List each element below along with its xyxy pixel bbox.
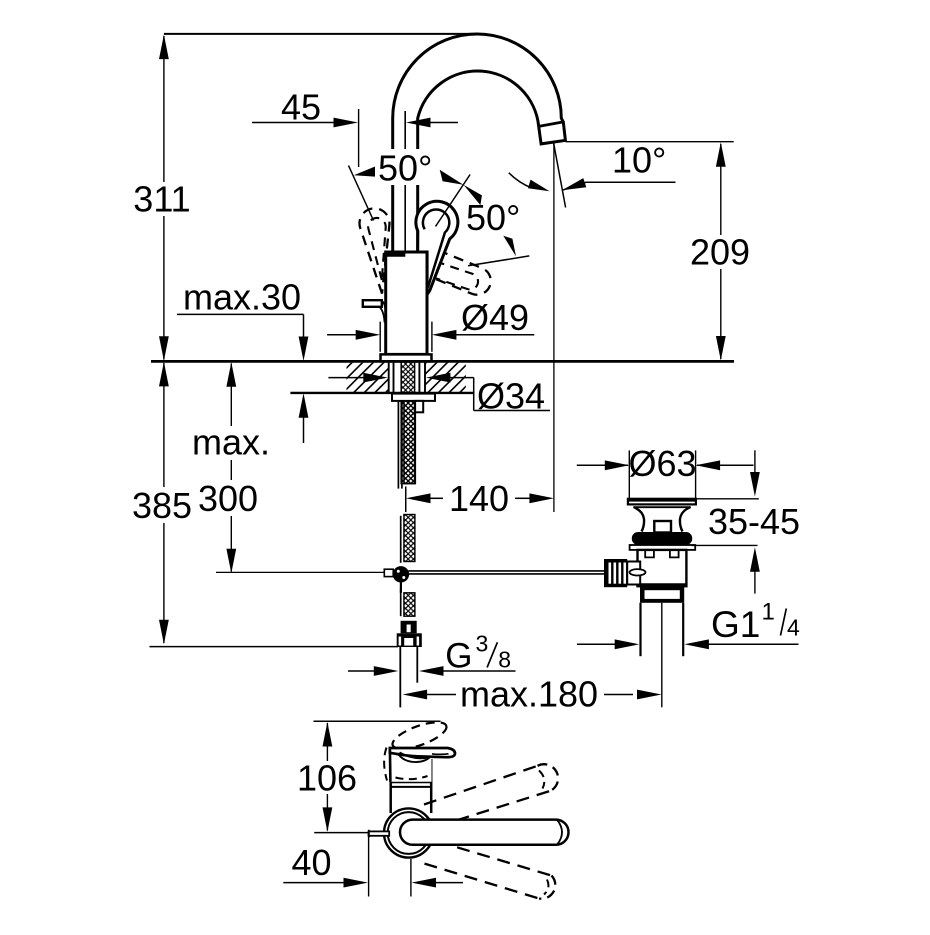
svg-text:G: G	[445, 637, 472, 676]
drain body	[638, 550, 687, 586]
pop-up rod knob	[363, 300, 382, 307]
svg-text:300: 300	[198, 478, 258, 519]
drain axis line	[661, 603, 663, 708]
drain step collar	[640, 587, 684, 603]
flexible hose segment 3	[404, 593, 415, 616]
spout middle seam / 45 extension	[404, 111, 406, 252]
supply tailpipe	[399, 647, 401, 707]
dim max.300	[230, 364, 232, 572]
shank sleeve lines	[388, 363, 390, 392]
counter hatching	[320, 362, 512, 395]
svg-text:311: 311	[133, 179, 190, 220]
dim 209	[720, 144, 722, 359]
svg-text:Ø49: Ø49	[461, 297, 529, 338]
svg-text:50°: 50°	[378, 147, 432, 188]
dim 311	[163, 36, 165, 360]
svg-text:1: 1	[762, 599, 775, 626]
svg-text:8: 8	[498, 647, 511, 673]
G3/8 connector nut	[397, 633, 422, 647]
pop-up rod knurled knob	[604, 559, 627, 587]
svg-text:45: 45	[281, 87, 321, 128]
lower view: handle lever blade (solid)	[390, 748, 455, 757]
dim O49	[379, 322, 381, 352]
body top thick bar	[386, 252, 405, 257]
handle swing range left (dashed lever)	[360, 208, 390, 293]
lower view: swivel joint	[384, 808, 433, 857]
svg-text:max.30: max.30	[183, 277, 301, 318]
svg-text:G1: G1	[711, 604, 760, 645]
horizontal pop-up rod	[408, 570, 604, 572]
drain seal washer	[632, 532, 692, 545]
svg-text:3: 3	[476, 631, 489, 657]
faucet body	[386, 252, 427, 354]
svg-text:50°: 50°	[466, 197, 520, 238]
lower view: spout tube	[400, 820, 569, 845]
lower view: dashed spout positions	[424, 766, 538, 805]
flexible hose segment 2	[404, 515, 415, 562]
drain plug tab	[654, 521, 671, 533]
top reference line	[164, 33, 478, 35]
svg-text:385: 385	[132, 485, 192, 526]
lower view: pop-up rod	[369, 831, 390, 835]
drain tailpipe G1 1/4	[639, 603, 641, 656]
svg-text:4: 4	[787, 614, 800, 640]
10 deg curved arrow	[509, 173, 532, 188]
dim 40	[368, 837, 370, 897]
385 bottom reference line	[150, 646, 399, 648]
dim 140	[405, 487, 407, 513]
svg-text:35-45: 35-45	[708, 501, 800, 542]
drain flange	[628, 499, 696, 505]
rod reference line left	[216, 571, 384, 573]
45 extension line	[358, 109, 360, 167]
threaded shank	[401, 357, 414, 484]
pop-up rod clip	[415, 401, 423, 412]
10 deg stream line	[554, 144, 566, 208]
dim 106	[314, 720, 441, 722]
svg-text:106: 106	[297, 758, 357, 799]
angle 50 deg right: leader line	[436, 175, 471, 227]
handle finger scoop	[400, 752, 429, 758]
angle 50 deg left: leader line	[349, 166, 374, 221]
svg-text:max.180: max.180	[460, 674, 598, 715]
dim O34	[328, 377, 364, 379]
rod slot	[630, 569, 646, 575]
axis tick through hose break	[405, 487, 407, 512]
spout outlet reference line	[566, 141, 734, 143]
svg-text:40: 40	[291, 842, 331, 883]
angle 50 deg lower leader	[468, 256, 529, 266]
rod end cap	[384, 569, 393, 576]
dim 385	[163, 363, 165, 643]
lower view: body top box	[390, 749, 432, 782]
drain pop-up waste: flange extension lines	[628, 450, 630, 498]
svg-text:Ø34: Ø34	[477, 376, 545, 417]
dim G1 1/4	[577, 643, 616, 645]
drain neck	[633, 506, 691, 508]
svg-text:10°: 10°	[612, 140, 666, 181]
spout gooseneck	[393, 34, 566, 252]
water stream vertical extension	[553, 144, 555, 513]
base escutcheon flange	[381, 354, 432, 361]
flexible hose segment 1	[404, 401, 415, 484]
mounting nut	[392, 394, 435, 401]
svg-text:140: 140	[449, 478, 509, 519]
drain washer plate	[630, 545, 696, 550]
svg-text:209: 209	[690, 232, 750, 273]
dim O63	[577, 464, 628, 466]
counter top surface line	[151, 360, 734, 363]
counter bottom line	[290, 392, 474, 394]
dim 35-45	[754, 450, 756, 473]
lower view: body column	[389, 782, 392, 813]
knob bracket	[627, 562, 640, 585]
svg-text:Ø63: Ø63	[628, 443, 696, 484]
aerator separator	[539, 122, 564, 127]
G3/8 connector block	[401, 621, 417, 634]
pop-up linkage ball joint	[393, 566, 409, 582]
lever handle (up)	[416, 201, 458, 294]
pop-up rod	[397, 401, 399, 489]
handle swing range right (dashed)	[415, 245, 495, 299]
dim max.180	[403, 690, 428, 700]
svg-text:max.: max.	[192, 422, 270, 463]
dim G3/8	[348, 670, 375, 672]
lower view: handle raised (dashed)	[389, 717, 449, 754]
